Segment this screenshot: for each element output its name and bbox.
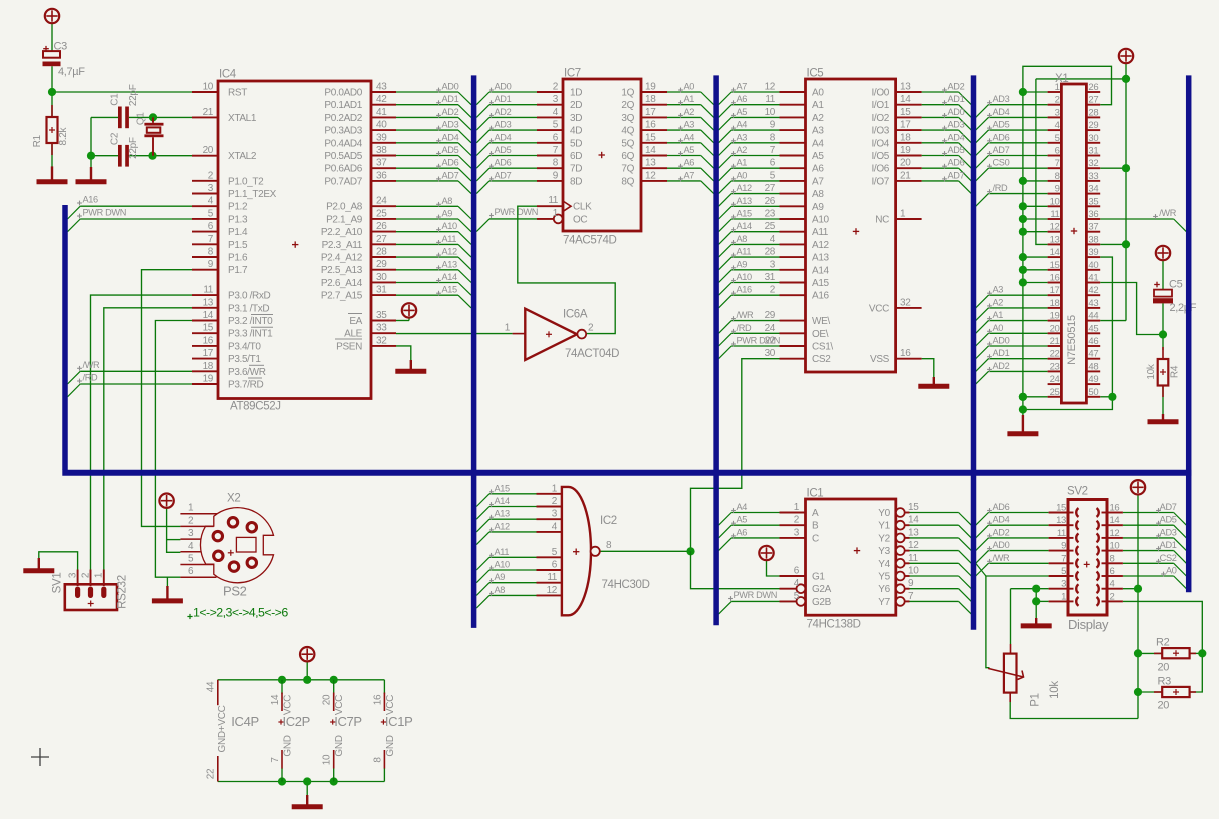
svg-text:16: 16 bbox=[900, 348, 911, 359]
wire X1 rail to pin row 11 bbox=[1023, 218, 1048, 220]
wire net CS2 from SV2 bbox=[1123, 562, 1174, 564]
svg-text:10: 10 bbox=[203, 82, 214, 93]
label AD2 at IC7 bbox=[489, 114, 494, 116]
svg-text:ALE: ALE bbox=[344, 329, 363, 340]
wire P1 bottom to VCC rail bbox=[1010, 693, 1138, 719]
pin IC4 14 P3.2 /INT0 bbox=[192, 320, 218, 322]
wire P1.7 to X2 pin2 bbox=[142, 270, 193, 527]
pin IC2 6 bbox=[537, 569, 562, 571]
label AD2 at IC5 output bbox=[942, 89, 947, 91]
svg-text:Display: Display bbox=[1068, 617, 1109, 632]
wire net A1 to X1 lower bbox=[976, 321, 989, 334]
pin IC5 29 WE\ bbox=[780, 320, 806, 322]
power block VCC symbol bbox=[300, 647, 314, 661]
op IC7 74AC574D latch bbox=[563, 79, 641, 231]
wire net A1 to IC5 bbox=[719, 168, 732, 181]
svg-text:11: 11 bbox=[547, 572, 557, 583]
resistor R1 8.2k bbox=[51, 105, 53, 117]
label AD5 bbox=[436, 153, 441, 155]
pin X1 28 bbox=[1086, 116, 1100, 118]
svg-text:7: 7 bbox=[1061, 553, 1066, 564]
pin IC2 3 bbox=[537, 518, 562, 520]
label A9 at IC5 bbox=[731, 267, 736, 269]
label A10 at IC2 bbox=[489, 567, 494, 569]
label AD4 at X1 bbox=[987, 114, 992, 116]
label AD0 at IC7 bbox=[489, 89, 494, 91]
svg-text:18: 18 bbox=[203, 361, 214, 372]
label A5 at IC7 output bbox=[678, 153, 683, 155]
junction power rail top x=307.2 bbox=[303, 676, 311, 684]
svg-text:26: 26 bbox=[765, 196, 776, 207]
svg-text:A12: A12 bbox=[737, 183, 753, 193]
pin X1 48 bbox=[1086, 370, 1100, 372]
label AD3 at X1 bbox=[987, 102, 992, 104]
svg-text:I/O4: I/O4 bbox=[872, 138, 890, 149]
wire net A9 from IC4 bbox=[396, 218, 458, 220]
svg-text:36: 36 bbox=[1088, 209, 1098, 220]
wire SV2 pin3/pin1 ground rail bbox=[1011, 588, 1049, 590]
svg-text:P0.6AD6: P0.6AD6 bbox=[324, 164, 362, 175]
junction X1 VCC pin38 bbox=[1122, 240, 1130, 248]
label AD7 at IC7 bbox=[489, 178, 494, 180]
svg-text:22: 22 bbox=[1050, 349, 1060, 360]
pin SV2 5 bbox=[1049, 575, 1068, 577]
svg-text:AD1: AD1 bbox=[993, 348, 1010, 358]
pin X1 16 bbox=[1048, 282, 1062, 284]
svg-text:VCC: VCC bbox=[283, 695, 294, 715]
pin X1 26 bbox=[1086, 91, 1100, 93]
power pins IC1P bbox=[383, 693, 385, 712]
wire X1 rail to pin row 8 bbox=[1023, 180, 1048, 182]
svg-text:8D: 8D bbox=[570, 176, 582, 187]
svg-text:33: 33 bbox=[376, 323, 387, 334]
wire IC1 Y0 to bus bbox=[910, 512, 959, 514]
pin SV2 6 bbox=[1107, 575, 1123, 577]
svg-text:6: 6 bbox=[770, 158, 776, 169]
svg-text:A13: A13 bbox=[495, 509, 511, 519]
label AD1 at IC7 bbox=[489, 102, 494, 104]
wire net A8 to IC5 bbox=[719, 244, 732, 257]
junction SV2 pin3 bbox=[1032, 585, 1040, 593]
wire net A3 to IC5 bbox=[719, 143, 732, 156]
label A5 at IC5 bbox=[731, 114, 736, 116]
svg-text:14: 14 bbox=[900, 94, 911, 105]
pin X1 2 bbox=[1048, 104, 1062, 106]
label CS0 at X1 bbox=[987, 165, 992, 167]
svg-text:27: 27 bbox=[1088, 95, 1098, 106]
svg-text:A1: A1 bbox=[737, 158, 748, 168]
svg-text:8Q: 8Q bbox=[621, 176, 634, 187]
wire net /WR to IC5 bbox=[719, 321, 732, 334]
svg-text:2: 2 bbox=[588, 323, 594, 334]
potentiometer P1 10k bbox=[1010, 644, 1012, 654]
svg-text:14: 14 bbox=[645, 145, 656, 156]
svg-text:AD2: AD2 bbox=[948, 82, 965, 92]
svg-text:AD3: AD3 bbox=[993, 94, 1010, 104]
svg-text:CS1\: CS1\ bbox=[812, 342, 833, 353]
pin X1 37 bbox=[1086, 231, 1100, 233]
pin X1 31 bbox=[1086, 155, 1100, 157]
pin IC7 18 2Q bbox=[641, 104, 667, 106]
wire net A6 to IC1 bbox=[719, 538, 732, 551]
svg-text:44: 44 bbox=[1088, 311, 1098, 322]
wire net AD5 from SV2 bbox=[1123, 524, 1174, 526]
junction R2 left bbox=[1134, 649, 1142, 657]
svg-text:11: 11 bbox=[908, 553, 918, 564]
wire net A13 to IC5 bbox=[719, 206, 732, 219]
pin SV2 14 bbox=[1107, 524, 1123, 526]
svg-text:16: 16 bbox=[1050, 273, 1060, 284]
wire X1 rail to pin row 10 bbox=[1023, 205, 1048, 207]
label A8 at IC2 bbox=[489, 592, 494, 594]
svg-text:/RD: /RD bbox=[83, 373, 98, 383]
pin IC4 15 P3.3 /INT1 bbox=[192, 332, 218, 334]
svg-text:4: 4 bbox=[553, 107, 559, 118]
svg-text:SV2: SV2 bbox=[1067, 486, 1088, 498]
svg-text:22pF: 22pF bbox=[128, 137, 139, 159]
pin X1 45 bbox=[1086, 332, 1100, 334]
svg-text:11: 11 bbox=[1057, 528, 1066, 539]
pin IC5 31 A15 bbox=[780, 282, 806, 284]
svg-text:P3.4/T0: P3.4/T0 bbox=[228, 341, 261, 352]
svg-text:R1: R1 bbox=[32, 134, 43, 147]
svg-text:8: 8 bbox=[1055, 171, 1060, 182]
bus vertical 4 (far right) bbox=[1186, 75, 1192, 592]
power VCC at IC1 G1 bbox=[759, 546, 773, 560]
svg-text:34: 34 bbox=[1088, 184, 1098, 195]
label A0 at X1 lower bbox=[987, 330, 992, 332]
label AD7 at X1 bbox=[987, 153, 992, 155]
wire net A3 from IC7 4Q bbox=[667, 129, 701, 131]
pin IC5 27 A8 bbox=[780, 193, 806, 195]
junction X1 rail row 12 bbox=[1019, 228, 1027, 236]
svg-text:A11: A11 bbox=[737, 247, 752, 257]
power VCC at X1 top bbox=[1119, 49, 1133, 63]
pin IC7 9 8D bbox=[537, 180, 563, 182]
svg-text:3: 3 bbox=[208, 183, 214, 194]
svg-text:I/O0: I/O0 bbox=[872, 88, 890, 99]
wire net AD6 to IC7 7D bbox=[476, 168, 489, 181]
pin X1 34 bbox=[1086, 193, 1100, 195]
svg-text:3: 3 bbox=[1061, 579, 1066, 590]
label /RD at X1 bbox=[987, 191, 992, 193]
svg-text:1: 1 bbox=[1061, 591, 1066, 602]
svg-text:A5: A5 bbox=[737, 107, 748, 117]
op IC2 74HC30D NAND gate bbox=[562, 487, 591, 615]
wire net AD3 from IC5 I/O3 bbox=[922, 129, 959, 131]
svg-text:9: 9 bbox=[1061, 541, 1066, 552]
svg-text:P1.7: P1.7 bbox=[228, 265, 248, 276]
pin SV2 8 bbox=[1107, 562, 1123, 564]
svg-text:13: 13 bbox=[900, 82, 911, 93]
svg-text:AD0: AD0 bbox=[993, 540, 1010, 550]
svg-text:A9: A9 bbox=[812, 202, 824, 213]
wire IC1 Y5 to bus bbox=[910, 575, 959, 577]
svg-text:AD2: AD2 bbox=[993, 527, 1010, 537]
label AD1 bbox=[436, 102, 441, 104]
svg-text:20: 20 bbox=[203, 145, 214, 156]
label A11 bbox=[436, 241, 441, 243]
label AD4 at IC7 bbox=[489, 140, 494, 142]
capacitor C2 22pF bbox=[118, 145, 122, 167]
svg-text:A14: A14 bbox=[495, 496, 511, 506]
svg-text:AD1: AD1 bbox=[1160, 540, 1177, 550]
pin IC5 19 I/O5 bbox=[896, 155, 922, 157]
pin IC4 43 P0.0AD0 bbox=[371, 91, 396, 93]
svg-text:39: 39 bbox=[376, 132, 387, 143]
pin X1 23 bbox=[1048, 370, 1062, 372]
svg-text:A11: A11 bbox=[812, 227, 829, 238]
svg-text:VCC: VCC bbox=[334, 695, 345, 715]
svg-text:A7: A7 bbox=[737, 82, 748, 92]
pin IC5 16 VSS bbox=[896, 358, 922, 360]
pin IC4 37 P0.6AD6 bbox=[371, 167, 396, 169]
svg-text:2: 2 bbox=[794, 515, 800, 526]
label AD6 at IC5 output bbox=[942, 165, 947, 167]
svg-text:43: 43 bbox=[376, 82, 387, 93]
label AD0 bbox=[436, 89, 441, 91]
svg-text:A2: A2 bbox=[993, 297, 1004, 307]
svg-text:A8: A8 bbox=[737, 234, 748, 244]
pin IC4 11 P3.0 /RxD bbox=[192, 294, 218, 296]
label /WR at X1 bbox=[1153, 216, 1158, 218]
svg-text:35: 35 bbox=[376, 310, 387, 321]
junction power rail top x=333.7 bbox=[330, 676, 338, 684]
wire X1 pin32 to VCC bbox=[1100, 167, 1126, 169]
wire net AD6 from IC5 I/O6 bbox=[922, 167, 959, 169]
svg-text:A4: A4 bbox=[684, 132, 695, 142]
svg-text:A5: A5 bbox=[684, 145, 695, 155]
svg-text:7Q: 7Q bbox=[621, 164, 634, 175]
svg-text:1Q: 1Q bbox=[621, 88, 634, 99]
junction X1 VCC pin32 bbox=[1122, 164, 1130, 172]
svg-text:31: 31 bbox=[376, 285, 387, 296]
svg-text:R3: R3 bbox=[1158, 676, 1172, 688]
svg-text:20: 20 bbox=[1158, 700, 1170, 712]
svg-text:25: 25 bbox=[376, 208, 387, 219]
svg-text:7: 7 bbox=[270, 757, 281, 763]
pin X1 24 bbox=[1048, 383, 1062, 385]
pin IC7 15 5Q bbox=[641, 142, 667, 144]
svg-text:CS2: CS2 bbox=[1160, 553, 1177, 563]
wire X1 pin36 /WR to bus5 bbox=[1100, 218, 1174, 220]
svg-text:20: 20 bbox=[1158, 662, 1170, 674]
pin IC4 38 P0.5AD5 bbox=[371, 155, 396, 157]
svg-text:18: 18 bbox=[1050, 298, 1060, 309]
wire P3.1 TxD to SV1 pin1 bbox=[104, 308, 192, 570]
svg-text:A8: A8 bbox=[495, 585, 506, 595]
wire net A14 to IC5 bbox=[719, 232, 732, 245]
svg-text:A6: A6 bbox=[737, 527, 748, 537]
svg-text:22: 22 bbox=[206, 768, 217, 779]
svg-text:6: 6 bbox=[552, 560, 558, 571]
wire net AD4 to IC7 5D bbox=[476, 143, 489, 156]
wire IC1 Y3 to bus bbox=[910, 550, 959, 552]
pin IC4 28 P2.4_A12 bbox=[371, 256, 396, 258]
svg-text:A0: A0 bbox=[1166, 566, 1177, 576]
junction RST node bbox=[48, 88, 56, 96]
wire net A4 to IC1 bbox=[719, 513, 732, 526]
pin IC7 13 7Q bbox=[641, 167, 667, 169]
wire net A11 from IC4 bbox=[396, 243, 458, 245]
pin SV2 11 bbox=[1049, 537, 1068, 539]
label A14 at IC2 bbox=[489, 504, 494, 506]
label A1 at IC7 output bbox=[678, 102, 683, 104]
svg-text:AD6: AD6 bbox=[495, 158, 512, 168]
wire net AD1 to IC7 2D bbox=[476, 105, 489, 118]
svg-text:P0.4AD4: P0.4AD4 bbox=[324, 138, 362, 149]
pin X1 9 bbox=[1048, 193, 1062, 195]
pin X1 10 bbox=[1048, 205, 1062, 207]
svg-text:2: 2 bbox=[1110, 591, 1115, 602]
svg-text:P1.3: P1.3 bbox=[228, 214, 248, 225]
svg-text:36: 36 bbox=[376, 170, 387, 181]
wire net A0 from IC7 1Q bbox=[667, 91, 701, 93]
svg-text:I/O6: I/O6 bbox=[872, 164, 890, 175]
label /RD at IC5 control bbox=[731, 330, 736, 332]
pin IC7 5 4D bbox=[537, 129, 563, 131]
wire EA to VCC bbox=[396, 320, 409, 322]
svg-text:AD3: AD3 bbox=[495, 120, 512, 130]
svg-text:2: 2 bbox=[553, 82, 559, 93]
svg-text:P1.0_T2: P1.0_T2 bbox=[228, 176, 264, 187]
pin IC5 32 VCC bbox=[896, 307, 922, 309]
svg-text:/WR: /WR bbox=[737, 310, 755, 320]
bus vertical 1 (between IC4 and IC7) bbox=[471, 75, 477, 628]
crystal Q1 bbox=[152, 117, 154, 122]
wire gnd stem power block bbox=[306, 782, 308, 796]
wire net /RD to IC5 bbox=[719, 333, 732, 346]
label PWR DWN at IC1 bbox=[728, 598, 733, 600]
pin X1 3 bbox=[1048, 116, 1062, 118]
label AD6 at SV2 bbox=[987, 510, 992, 512]
svg-text:A8: A8 bbox=[812, 189, 824, 200]
svg-text:A15: A15 bbox=[442, 285, 458, 295]
svg-text:5: 5 bbox=[1061, 566, 1066, 577]
wire net PWR DWN to IC7 OC bbox=[476, 219, 489, 232]
svg-text:1: 1 bbox=[188, 503, 194, 514]
pin X2 4 bbox=[180, 551, 201, 553]
power pins IC4P bbox=[217, 680, 219, 705]
pin SV1 3 bbox=[77, 570, 79, 587]
label A16 bbox=[77, 202, 82, 204]
svg-text:AD7: AD7 bbox=[993, 145, 1010, 155]
svg-text:A7: A7 bbox=[684, 170, 695, 180]
svg-text:A6: A6 bbox=[684, 158, 695, 168]
junction power rail bottom x=333.7 bbox=[330, 777, 338, 785]
svg-text:10: 10 bbox=[322, 754, 333, 765]
pin IC4 36 P0.7AD7 bbox=[371, 180, 396, 182]
wire net AD7 to IC7 8D bbox=[476, 181, 489, 194]
wire SV2 pin5 and P1 wiper bbox=[976, 563, 986, 576]
svg-text:1: 1 bbox=[553, 208, 559, 219]
label A13 bbox=[436, 267, 441, 269]
label AD3 at IC5 output bbox=[942, 127, 947, 129]
pin IC2 2 bbox=[537, 506, 562, 508]
svg-text:2: 2 bbox=[552, 496, 558, 507]
svg-text:74HC30D: 74HC30D bbox=[602, 579, 650, 591]
label AD1 right of SV2 bbox=[1156, 548, 1161, 550]
pin SV2 9 bbox=[1049, 550, 1068, 552]
pin X1 38 bbox=[1086, 243, 1100, 245]
svg-text:AD6: AD6 bbox=[948, 158, 965, 168]
svg-text:11: 11 bbox=[203, 285, 213, 296]
svg-text:15: 15 bbox=[900, 107, 911, 118]
svg-text:8: 8 bbox=[1110, 553, 1115, 564]
wire net AD2 to SV2 bbox=[976, 538, 989, 551]
pin IC7 6 5D bbox=[537, 142, 563, 144]
pin IC1 5 G2B bbox=[780, 600, 797, 602]
wire X1 rail to pin row 14 bbox=[1023, 256, 1048, 258]
pin X1 1 bbox=[1048, 91, 1062, 93]
svg-text:13: 13 bbox=[203, 297, 214, 308]
svg-text:Q1: Q1 bbox=[135, 112, 146, 125]
pin IC5 26 A9 bbox=[780, 205, 806, 207]
label A15 bbox=[436, 292, 441, 294]
wire net AD1 from IC5 I/O1 bbox=[922, 104, 959, 106]
pin X1 43 bbox=[1086, 307, 1100, 309]
label AD7 at IC5 output bbox=[942, 178, 947, 180]
svg-text:P3.2 /INT0: P3.2 /INT0 bbox=[228, 316, 273, 327]
pin IC1 9 Y6 bbox=[896, 584, 905, 593]
svg-text:20: 20 bbox=[900, 158, 911, 169]
svg-text:PWR DWN: PWR DWN bbox=[734, 590, 777, 600]
svg-text:7: 7 bbox=[208, 234, 214, 245]
wire net A5 from IC7 6Q bbox=[667, 155, 701, 157]
wire power block GND bottom rail bbox=[218, 781, 385, 783]
wire net /RD to P3.7 bbox=[68, 384, 81, 397]
svg-text:Y4: Y4 bbox=[878, 559, 890, 570]
junction XTAL1-Q1 bbox=[149, 113, 157, 121]
label /RD left bbox=[77, 380, 82, 382]
svg-text:49: 49 bbox=[1088, 374, 1098, 385]
pin X1 13 bbox=[1048, 243, 1062, 245]
wire branch to IC1 G2A bbox=[691, 551, 797, 588]
svg-text:AD4: AD4 bbox=[495, 132, 512, 142]
wire X1 rail to pin row 1 bbox=[1023, 91, 1048, 93]
label /WR left bbox=[77, 367, 82, 369]
pin X1 19 bbox=[1048, 320, 1062, 322]
pin SV2 3 bbox=[1049, 588, 1068, 590]
pin SV2 16 bbox=[1107, 512, 1123, 514]
svg-text:11: 11 bbox=[765, 94, 775, 105]
pin SV2 2 bbox=[1107, 600, 1123, 602]
connector X2 PS2 mini-DIN bbox=[200, 508, 273, 583]
svg-text:AD5: AD5 bbox=[993, 120, 1010, 130]
wire X1 pin38 to VCC bbox=[1100, 243, 1126, 245]
pin X1 14 bbox=[1048, 256, 1062, 258]
svg-text:32: 32 bbox=[376, 335, 387, 346]
svg-text:37: 37 bbox=[1088, 222, 1098, 233]
label A9 at IC2 bbox=[489, 580, 494, 582]
svg-text:17: 17 bbox=[900, 120, 911, 131]
ground under IC5 VSS bbox=[933, 377, 935, 388]
pin IC4 13 P3.1 /TxD bbox=[192, 307, 218, 309]
junction power rail bottom x=282 bbox=[278, 777, 286, 785]
svg-text:3: 3 bbox=[553, 94, 559, 105]
svg-text:A12: A12 bbox=[495, 521, 511, 531]
svg-text:5Q: 5Q bbox=[621, 138, 634, 149]
svg-text:4D: 4D bbox=[570, 126, 582, 137]
pin overlines IC4 left bbox=[251, 314, 273, 316]
wire IC5 CS2 down to IC2 output net bbox=[691, 359, 780, 552]
wire net AD7 to X1 bbox=[976, 156, 989, 169]
svg-text:AD4: AD4 bbox=[993, 515, 1010, 525]
label AD5 at IC5 output bbox=[942, 153, 947, 155]
wire IC1 Y4 to bus bbox=[910, 562, 959, 564]
svg-text:/WR: /WR bbox=[993, 553, 1011, 563]
label AD6 at IC7 bbox=[489, 165, 494, 167]
